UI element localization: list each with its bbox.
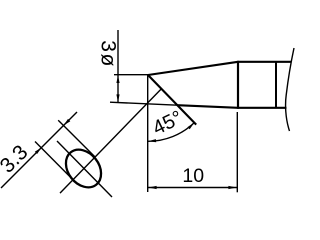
dimension 10: right extension line bbox=[236, 112, 238, 192]
body: left shoulder edge bbox=[237, 61, 239, 109]
tip outline: bottom edge of cone (bevel vertex to body) bbox=[177, 105, 238, 108]
dimension 45deg: right arrowhead (touches bevel line) bbox=[188, 123, 195, 130]
svg-text:45°: 45° bbox=[149, 107, 186, 140]
extension line: vertical through apex (left leg of 45-deg, left ext of 10) bbox=[147, 75, 149, 192]
svg-text:3.3: 3.3 bbox=[0, 141, 33, 178]
dimension phi-3: lower arrowhead bbox=[116, 94, 119, 102]
dimension 10: horizontal dimension line bbox=[148, 187, 238, 189]
dimension 10: right arrowhead bbox=[228, 186, 236, 189]
dimension 45deg: arc bbox=[148, 123, 195, 142]
dimension 3.3: upper arrowhead (outside, pointing down-left at E2) bbox=[64, 119, 71, 126]
svg-text:10: 10 bbox=[182, 165, 204, 187]
body: wavy break line at right bbox=[286, 48, 294, 131]
dimension 45deg: left arrowhead (touches vertical line) bbox=[148, 139, 156, 142]
svg-text:3ø: 3ø bbox=[97, 40, 120, 68]
dimension phi-3: upper arrowhead bbox=[116, 75, 119, 83]
projection centerline from bevel face to ellipse view bbox=[60, 89, 161, 193]
extension line: bottom edge extended left (phi-3 extension / 45-deg leg) bbox=[110, 102, 177, 105]
dimension 3.3: dimension line bbox=[1, 112, 77, 188]
dimension phi-3: vertical dimension line bbox=[117, 30, 119, 102]
body: top edge bbox=[238, 61, 292, 63]
body: inner groove vertical line bbox=[275, 62, 277, 108]
dimension 3.3: lower arrowhead (outside, pointing up-right at E1) bbox=[35, 147, 42, 154]
extension line: horizontal at apex level for phi-3 bbox=[114, 74, 148, 76]
tip outline: 45-degree bevel face line (extended for angle dimension) bbox=[148, 75, 196, 125]
tip outline: top edge of cone bbox=[148, 62, 238, 75]
ellipse view of bevel face bbox=[59, 143, 109, 194]
dimension 10: left arrowhead bbox=[148, 186, 156, 189]
ellipse major axis line bbox=[57, 141, 112, 197]
dimension 3.3: upper extension line E2 bbox=[58, 120, 94, 156]
dimension 3.3: lower extension line E1 bbox=[35, 142, 73, 180]
body: bottom edge bbox=[238, 107, 287, 109]
